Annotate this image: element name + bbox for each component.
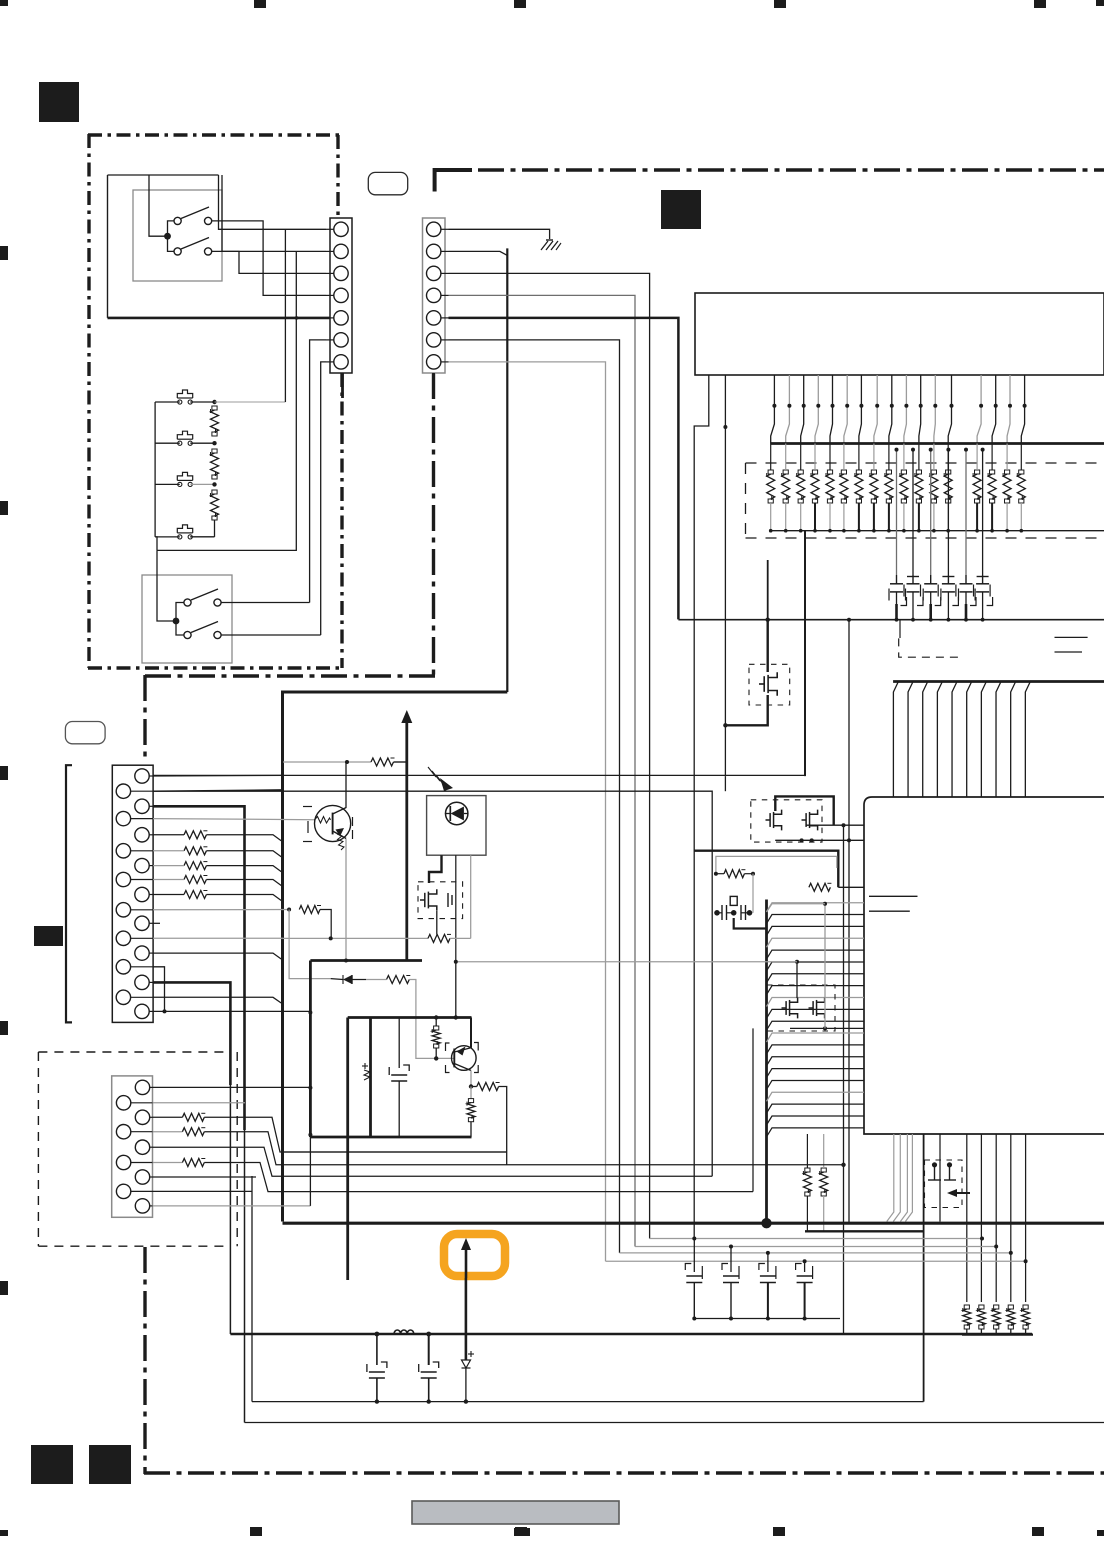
wire CN11 pin3 thick [153,806,244,1130]
fiducial mark bottom edge 4 [1032,1527,1044,1536]
wire CN1 pin6 drop [310,340,326,603]
MOSFET Q15 [812,1001,814,1015]
wire key row 2 to bus [153,850,184,852]
wire S1 pole1 to CN1 pin4 [212,221,326,296]
connector CN2 pin 4 [427,288,441,302]
wire display pin 7 drop [859,375,862,444]
microprocessor IC U1 [864,797,1104,1134]
ground rail y620 [678,619,1104,621]
push-button SW3 [178,482,182,486]
main bus thick (y681) [893,680,1104,683]
connector CN2 pin 1 [427,222,441,236]
wire R34 to Q2 base [409,980,454,1059]
ground rail y1401 [252,1401,924,1403]
trimmer capacitor CT2 [912,575,914,584]
connector CN1 pin 1 [334,222,348,236]
crystal ground lead thick [734,918,767,929]
connector CN1 pin 5 [334,311,348,325]
switch S1 outer box [133,190,222,281]
switch S1 pole 2 contacts [174,248,181,255]
wire display pin 12 drop [934,375,935,444]
small dashed box under trimmer group [899,638,960,657]
wire CN11 pin14 jog [153,967,164,1012]
wire bus-to-IC column 2 [908,682,913,798]
resistor R32 [287,908,291,912]
frame thick left [346,1018,349,1281]
crystal load caps [721,905,723,920]
thick link to frame [310,1136,347,1139]
wire x805 thick riser [804,531,806,776]
jog x725 end [724,776,726,791]
connector CN1 body [330,218,352,373]
display pin1 drop to IC power [694,375,709,1239]
IC left pin line 19 [767,1116,865,1125]
wire key row 3 to bus [153,865,184,867]
pull-down resistor array dashed box [746,462,1104,464]
IC pin marker arrow [947,1189,957,1197]
resistor Rb2 [977,1309,985,1325]
IC left pin line 6 [767,962,865,971]
wire button SW1 row [155,401,180,403]
IC bottom black drop 2 [980,1134,982,1302]
wire Q2 collector [470,1018,472,1048]
wire CN11 pin2 to line y790 [153,790,283,791]
wire Ra16 leads [1006,444,1008,471]
black mark under footer box [514,1528,530,1536]
IC internal label line 2 [869,910,910,912]
board outline: main block left edge lower b [143,1247,146,1474]
wire display pin 6 drop [844,375,847,444]
gray corner feeds to cap bank [606,1260,1026,1262]
IC left pin line 12 [767,1033,865,1042]
alignment square top-left [39,82,79,122]
wire button bus left vertical [154,402,156,537]
wire display pin 3 drop [801,375,804,444]
wire CN11 pin15 thick [153,982,230,1085]
wire R36 out [499,1087,507,1165]
fiducial mark left edge 4 [0,1021,8,1035]
wire CN3 pin8 [153,1190,253,1192]
wire CN11 pin13 to bus [153,953,281,959]
wire CN3 pin5 [153,1147,284,1176]
capacitor C32 [428,1334,430,1365]
wire CN11 pin10 to R32 [153,909,289,911]
IC aux line right 2 [1055,651,1083,653]
fiducial mark top edge 3 [774,0,786,8]
resistor R23 vertical [803,1172,811,1192]
board outline: operation block right edge lower [340,373,343,668]
wire display pin 8 drop [874,375,877,444]
wire Q14/Q15 bottom rail [790,1027,864,1029]
wire Ra14 leads [976,444,978,471]
wire trimmer column 4 riser [947,450,949,575]
wire CN11 pin1 to line y775 [153,774,283,777]
board outline: main block left edge mid [432,373,435,677]
wire CN2 pin5 thick power trace [449,318,679,620]
highlight box (orange) around power arrow [444,1234,505,1276]
gray footer label box [412,1501,619,1524]
switch S1 pole 2 blade [181,238,209,250]
push-button SW4 [178,535,182,539]
gray loop crystal top [716,856,837,873]
wire key row 4 to bus [153,879,184,881]
connector CN3 pin 8 [116,1184,130,1198]
crystal feed resistor R22 [724,870,744,878]
wire trimmer column 2 riser [912,450,914,575]
connector CN11 pin 2 [116,784,130,798]
trimmer capacitor CT5 [965,575,967,584]
IC left pin upper 1 [806,824,864,826]
wire CN1 pin2 stub [222,250,326,252]
IC left pin line 16 [767,1080,865,1089]
MOSFET pair Q12/Q13 dashed box [751,800,822,842]
connector CN11 pin 7 [135,858,149,872]
array resistor Ra16 [1003,474,1011,499]
array resistor Ra9 [885,474,893,499]
MOSFET Q14 [785,1001,787,1015]
Q2 base bar [453,1049,455,1068]
IC left pin line 4 [767,938,865,947]
IC left pin line 2 [767,915,865,924]
wire bus-to-IC column 7 [981,682,986,798]
rail dots x310 [308,1011,312,1015]
wire feed CN1 pin5 thick [108,317,331,320]
array resistor Ra10 [900,474,908,499]
IC pin resistor R21 [809,883,831,891]
connector CN11 pin 15 [135,975,149,989]
trimmer capacitor CT3 [930,575,932,584]
wire S2 common feed from buttons [157,550,176,621]
photo interrupter LED [446,802,468,824]
array resistor Ra1 [767,474,775,499]
resistor Rb4 [1007,1309,1015,1325]
band line y1176 [283,1175,712,1177]
frame thick vert2 [369,1018,372,1138]
wire button SW2 row [155,442,180,444]
fiducial mark left edge 5 [0,1281,8,1295]
resistor R11 (key matrix) [184,831,206,839]
wire CN11 pin4 gray (Q1 base) [153,819,314,820]
IC left pin line 9 [767,998,865,1007]
connector CN1 pin 6 [334,333,348,347]
wire Ra17 leads [1020,444,1022,471]
Q1 dashed bracket [303,806,312,808]
connector CN11 pin 12 [116,931,130,945]
IC bottom black drop 4 [1010,1134,1012,1302]
wire gray jog 1 [767,904,826,912]
option board dashed box [38,1051,227,1053]
wire CN2 pin6 long drop [449,340,620,1253]
wire CN1 pin7 drop [321,362,326,635]
MOSFET Q12 [769,813,771,827]
array resistor Ra7 [855,474,863,499]
long line y775 from left [153,774,805,776]
switch S1 pole 1 blade [181,207,209,219]
connector CN2 pin 6 [427,333,441,347]
wire display pin 10 drop [904,375,907,444]
array resistor Ra11 [915,474,923,499]
board outline: operation block left edge [87,134,90,668]
board outline: operation block top edge [88,133,339,136]
connector CN3 pin 5 [135,1140,149,1154]
riser x767 thick upper [767,560,769,620]
IC bottom gray drop 3 [900,1134,907,1222]
wire Ra11 leads [918,444,920,471]
connector CN11 pin 11 [135,916,149,930]
wire display pin 17 drop [1021,375,1024,444]
connector CN3 pin 7 [135,1170,149,1184]
switch S2 common junction [173,618,180,625]
IC bottom gray drop 1 [887,1134,894,1222]
wire bus-to-IC column 5 [952,682,957,798]
wire U2 mid lead lower [455,962,457,1018]
wire Ra15 leads [991,444,993,471]
switch S2 pole 1 blade [191,589,218,600]
riser x725 long (display pin2) [724,426,726,776]
wire CN2 pin4 long drop [449,295,636,1246]
array resistor Ra17 [1017,474,1025,499]
connector CN3 pin 4 [116,1125,130,1139]
push-button SW1 [178,400,182,404]
gray rail y938 [283,937,428,939]
wire bus-to-IC column 3 [923,682,928,798]
Q2 collector diag [454,1048,471,1052]
trimmer capacitor CT4 [947,575,949,584]
wire display pin 11 drop [919,375,921,444]
wire Q2 emitter [470,1071,472,1087]
wire bus-to-IC column 4 [937,682,942,798]
Q1 collector diag [333,808,347,815]
transistor Q2 [452,1046,477,1071]
wire trimmer column 6 riser [982,450,984,575]
fiducial mark bottom edge 3 [773,1527,785,1536]
fiducial mark left edge 2 [0,501,8,515]
connector CN3 pin 1 [135,1080,149,1094]
wire key row 1 to bus [153,834,184,836]
IC left pin line 10 [767,1009,865,1018]
CPU left bus thick vertical [765,900,768,1223]
connector CN3 pin 9 [135,1199,149,1213]
IC bottom gray drop 2 [893,1134,900,1222]
wire Q12/Q13 bottom rail [775,839,864,841]
IC bottom drop to cap rail [939,1134,941,1222]
wire Ra4 leads [814,444,816,471]
resistor R11 (button ladder) [211,410,219,432]
IC bottom black drop 3 [995,1134,997,1302]
fiducial mark bottom edge 1 [250,1527,262,1536]
long line y790 from left [153,791,712,1176]
connector CN11 pin 10 [116,903,130,917]
array resistor Ra8 [870,474,878,499]
zener diode D31 with plus [465,1278,468,1360]
IC left pin line 8 [767,986,865,995]
wire display pin 2 drop [786,375,790,444]
wire Ra10 leads [903,444,905,471]
board outline: operation block right edge upper [336,135,339,218]
wire Ra13 leads [947,444,949,471]
wire S1 top run [108,174,150,176]
alignment square bottom-left 1 [31,1445,73,1484]
photo-thermistor symbol [428,767,444,785]
Q2 emitter diag [454,1064,471,1071]
wire Q11 source thick [725,695,767,725]
connector CN3 pin 3 [135,1110,149,1124]
wire CN3 pin9 [153,1205,311,1207]
wire display pin 15 drop [992,375,996,444]
resistor R37 vertical [470,1087,472,1099]
resistor R13 (key matrix) [184,862,206,870]
MOSFET Q3 [424,893,426,907]
bypass capacitor Cb1 [692,1237,696,1241]
wire trimmer column 1 riser [896,450,898,575]
band line y1152 [283,1151,507,1153]
Q1 emitter diag [333,831,347,839]
wire Ra6 leads [843,444,845,471]
resistor R12 (key matrix) [184,847,206,855]
capacitor C22 [398,1018,400,1069]
wire Q1 collector [345,762,347,808]
inductor L1 [394,1330,414,1334]
resistor R12 (button ladder) [211,453,219,475]
fiducial mark top edge 1 [254,0,266,8]
fiducial mark bottom edge 2 [515,1527,527,1536]
connector CN11 pin 8 [116,872,130,886]
resistor R24 vertical [820,1172,828,1192]
chassis ground symbol [546,239,553,241]
frame thick top [348,1016,472,1019]
alignment square top-center [661,190,701,229]
connector CN3 body [112,1076,153,1217]
wire R32 left drop [289,910,331,979]
alignment rectangle mid-left [34,926,63,946]
rail left risers [229,1085,231,1334]
resistor Rb1 [963,1309,971,1325]
diode D1 [331,978,343,981]
wire Ra8 leads [873,444,875,471]
switch S1 common junction [164,233,171,240]
wire button1 to riser [215,401,286,403]
array resistor Ra3 [797,474,805,499]
IC left pin upper 3 (thick) [694,851,838,888]
array common rail [771,530,1104,532]
IC bottom black drop 5 [1025,1134,1027,1302]
IC left pin line 5 [767,950,865,959]
IC bottom drop x922 long [923,1134,925,1402]
riser x285 to CN1 pin1 [284,229,286,402]
wire Q1 emitter [345,839,347,961]
IC left pin line 15 [767,1069,865,1078]
wire Ra3 leads [800,444,802,471]
cap bank риser to bus [693,620,695,1238]
IC aux line right 1 [1055,636,1088,638]
wire CN3 pin1 [153,1086,311,1088]
IC bottom gray drop 4 [905,1134,912,1222]
board outline: operation block bottom edge [88,666,344,669]
band line y1164 [283,1164,844,1166]
wire CN2 pin2 jog [449,251,508,255]
resistor pair ground stub [805,1230,924,1232]
wire S2 common link [176,603,184,636]
connector CN11 pin 13 [135,946,149,960]
connector CN1 pin 4 [334,288,348,302]
fiducial mark left edge 3 [0,766,8,780]
fiducial mark left edge 1 [0,246,8,260]
IC internal label line 1 [869,895,918,897]
IC bottom black drop 1 [966,1134,968,1302]
power riser x507 (mid) [506,248,508,692]
switch S2 outer box [142,575,232,663]
band line y1191 [283,1191,753,1193]
resistor R43 [153,1162,183,1164]
junction dots button ladder [212,400,216,404]
wire S1 pole2 to CN1 pin3 [212,251,326,273]
IC left pin line 3 [767,926,865,935]
bypass capacitor Cb3 [766,1251,770,1255]
array resistor Ra14 [973,474,981,499]
wire bus-to-IC column 9 [1011,682,1016,798]
cap bank bottom rail [694,1318,840,1320]
Q1 emitter arrow [336,828,345,837]
wire display pin 5 drop [830,375,833,444]
IC left pin line 11 [767,1021,865,1030]
wire CN11 pin17 [153,1010,310,1012]
wire display pin 1 drop [771,375,775,444]
wire CN11 pin3 lower [244,1130,246,1423]
board outline: main block left edge lower a [143,675,146,762]
fiducial mark top edge 2 [514,0,526,8]
bypass capacitor Cb4 [803,1259,807,1263]
wire Ra5 leads [829,444,831,471]
wire bus-to-IC column 1 [893,682,898,798]
IC left pin line 17 [767,1092,865,1101]
wire S1 left drop to pin5 feed [107,175,109,318]
transistor Q1 (digital PNP) [315,805,351,841]
wire mid line y962 [456,961,797,963]
connector CN2 pin 5 [427,311,441,325]
main ground bus thick y1223 [283,1222,1104,1225]
connector CN1 pin 7 [334,355,348,369]
photo interrupter box U2 [427,796,486,856]
IC left pin line 1 [767,903,865,912]
connector CN11 pin 9 [135,887,149,901]
connector CN1 pin 3 [334,266,348,280]
alignment square bottom-left 2 [89,1445,131,1484]
resistor R42 [153,1131,183,1133]
resistor R36 [477,1083,499,1091]
board outline: main block top edge [478,168,1104,171]
crystal X1 circuit [730,896,737,905]
resistor R15 (key matrix) [184,891,206,899]
array resistor Ra4 [811,474,819,499]
connector CN2 pin 3 [427,266,441,280]
connector CN3 pin 2 [116,1096,130,1110]
wire display pin 16 drop [1007,375,1010,444]
wire buttons bottom return [155,537,157,551]
thick rail y960 [310,959,422,962]
wire CN2 pin1 to chassis ground [449,229,550,239]
electrolytic cap C21 (+) [364,1070,370,1080]
MOSFET pair Q14/Q15 dashed box [767,985,835,1031]
wire display pin 13 drop [948,375,951,444]
wire ladder bottom [214,520,216,537]
supply arrow stem thick [405,721,408,961]
display module block [695,293,1104,375]
wire top branch [149,174,219,176]
Q1 internal base resistor [315,817,331,824]
resistor group bottom rail [962,1333,1033,1335]
IC left pin line 18 [767,1104,865,1113]
wire S1 common left and up [149,175,168,236]
